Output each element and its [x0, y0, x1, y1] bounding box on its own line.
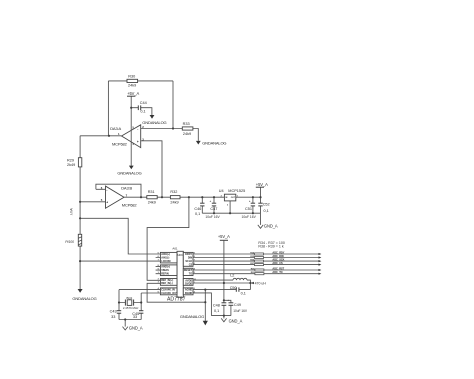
svg-text:AIN1(-): AIN1(-) — [161, 256, 169, 259]
svg-text:CLK64K_OUT: CLK64K_OUT — [161, 292, 178, 295]
svg-text:+: + — [106, 201, 108, 205]
svg-text:0,1: 0,1 — [214, 309, 219, 313]
svg-text:AD7787: AD7787 — [167, 296, 186, 302]
svg-text:+: + — [137, 140, 139, 144]
svg-text:+: + — [210, 199, 212, 203]
svg-text:R38 - R39 = 1 k: R38 - R39 = 1 k — [258, 244, 283, 248]
svg-text:R30: R30 — [128, 74, 135, 78]
svg-text:ADC_DIN: ADC_DIN — [272, 255, 283, 258]
svg-text:GNDANALOG: GNDANALOG — [202, 141, 226, 146]
svg-text:24k9: 24k9 — [183, 132, 191, 136]
svg-text:GNDANALOG: GNDANALOG — [142, 120, 166, 125]
svg-text:GND_A: GND_A — [229, 318, 243, 323]
svg-text:DA3:B: DA3:B — [121, 185, 132, 190]
svg-text:MCP1525: MCP1525 — [228, 189, 245, 193]
svg-text:BQ2: BQ2 — [127, 296, 133, 300]
svg-text:C52: C52 — [263, 202, 270, 206]
svg-text:+: + — [249, 199, 251, 203]
svg-text:C47: C47 — [210, 207, 217, 211]
svg-text:ADC_RST: ADC_RST — [272, 268, 284, 271]
svg-text:ADC_CS: ADC_CS — [272, 262, 283, 265]
svg-text:R31: R31 — [148, 190, 155, 194]
svg-text:GNDANALOG: GNDANALOG — [180, 314, 204, 319]
svg-text:REF_IN(-): REF_IN(-) — [161, 282, 173, 285]
svg-text:24k9: 24k9 — [170, 200, 178, 204]
svg-text:0,1: 0,1 — [195, 212, 200, 216]
svg-text:MCP682: MCP682 — [112, 141, 128, 146]
svg-text:24k9: 24k9 — [148, 200, 156, 204]
svg-text:R33: R33 — [183, 122, 190, 126]
svg-text:GND_A: GND_A — [264, 224, 278, 229]
svg-text:470 uH: 470 uH — [255, 282, 267, 286]
svg-text:A61: A61 — [172, 247, 178, 251]
svg-text:VBIAS: VBIAS — [161, 269, 169, 272]
svg-text:+5V_A: +5V_A — [218, 234, 230, 239]
svg-text:CS: CS — [189, 264, 193, 267]
svg-text:RESET: RESET — [184, 269, 193, 272]
svg-text:L2: L2 — [230, 274, 234, 278]
svg-text:ADC: ADC — [177, 253, 184, 257]
svg-text:-: - — [137, 127, 138, 131]
svg-text:-: - — [106, 188, 107, 192]
svg-text:0,1: 0,1 — [140, 110, 145, 114]
svg-text:Pt100: Pt100 — [65, 240, 74, 244]
svg-text:C49: C49 — [234, 303, 241, 307]
svg-text:C46: C46 — [194, 207, 201, 211]
svg-text:+: + — [227, 298, 229, 302]
svg-text:DGND: DGND — [185, 292, 193, 295]
svg-text:DA3:A: DA3:A — [110, 126, 121, 131]
svg-text:GND_A: GND_A — [129, 326, 143, 331]
svg-text:TO: TO — [189, 273, 192, 276]
svg-text:ADC_TO: ADC_TO — [272, 271, 282, 274]
svg-text:0,1: 0,1 — [241, 292, 246, 296]
svg-text:0,1: 0,1 — [264, 209, 269, 213]
svg-text:2.4576 MHz: 2.4576 MHz — [123, 306, 139, 310]
svg-text:GNDANALOG: GNDANALOG — [72, 296, 96, 301]
svg-text:R32: R32 — [170, 190, 177, 194]
svg-text:33: 33 — [111, 315, 115, 319]
svg-text:10uF 16V: 10uF 16V — [242, 215, 257, 219]
svg-text:C50: C50 — [230, 286, 237, 290]
svg-text:24k9: 24k9 — [128, 83, 136, 87]
svg-text:DVDD: DVDD — [185, 282, 192, 285]
svg-text:U4: U4 — [219, 189, 224, 193]
svg-text:GNDANALOG: GNDANALOG — [117, 171, 141, 176]
svg-text:C48: C48 — [213, 304, 220, 308]
svg-text:MCP682: MCP682 — [122, 202, 138, 207]
svg-text:2k49: 2k49 — [67, 163, 75, 167]
svg-text:LOCOM: LOCOM — [161, 260, 170, 263]
svg-text:10uF 16V: 10uF 16V — [233, 309, 248, 313]
svg-text:+5V_A: +5V_A — [127, 91, 139, 96]
svg-text:C43: C43 — [110, 310, 117, 314]
svg-text:REFIN: REFIN — [161, 273, 169, 276]
svg-text:33: 33 — [133, 315, 137, 319]
svg-text:C44: C44 — [140, 101, 147, 105]
svg-text:+5V_A: +5V_A — [256, 182, 268, 187]
svg-text:DIN: DIN — [188, 256, 193, 259]
svg-text:C51: C51 — [245, 207, 252, 211]
svg-text:I mA: I mA — [70, 208, 74, 216]
svg-text:10uF 16V: 10uF 16V — [205, 215, 220, 219]
